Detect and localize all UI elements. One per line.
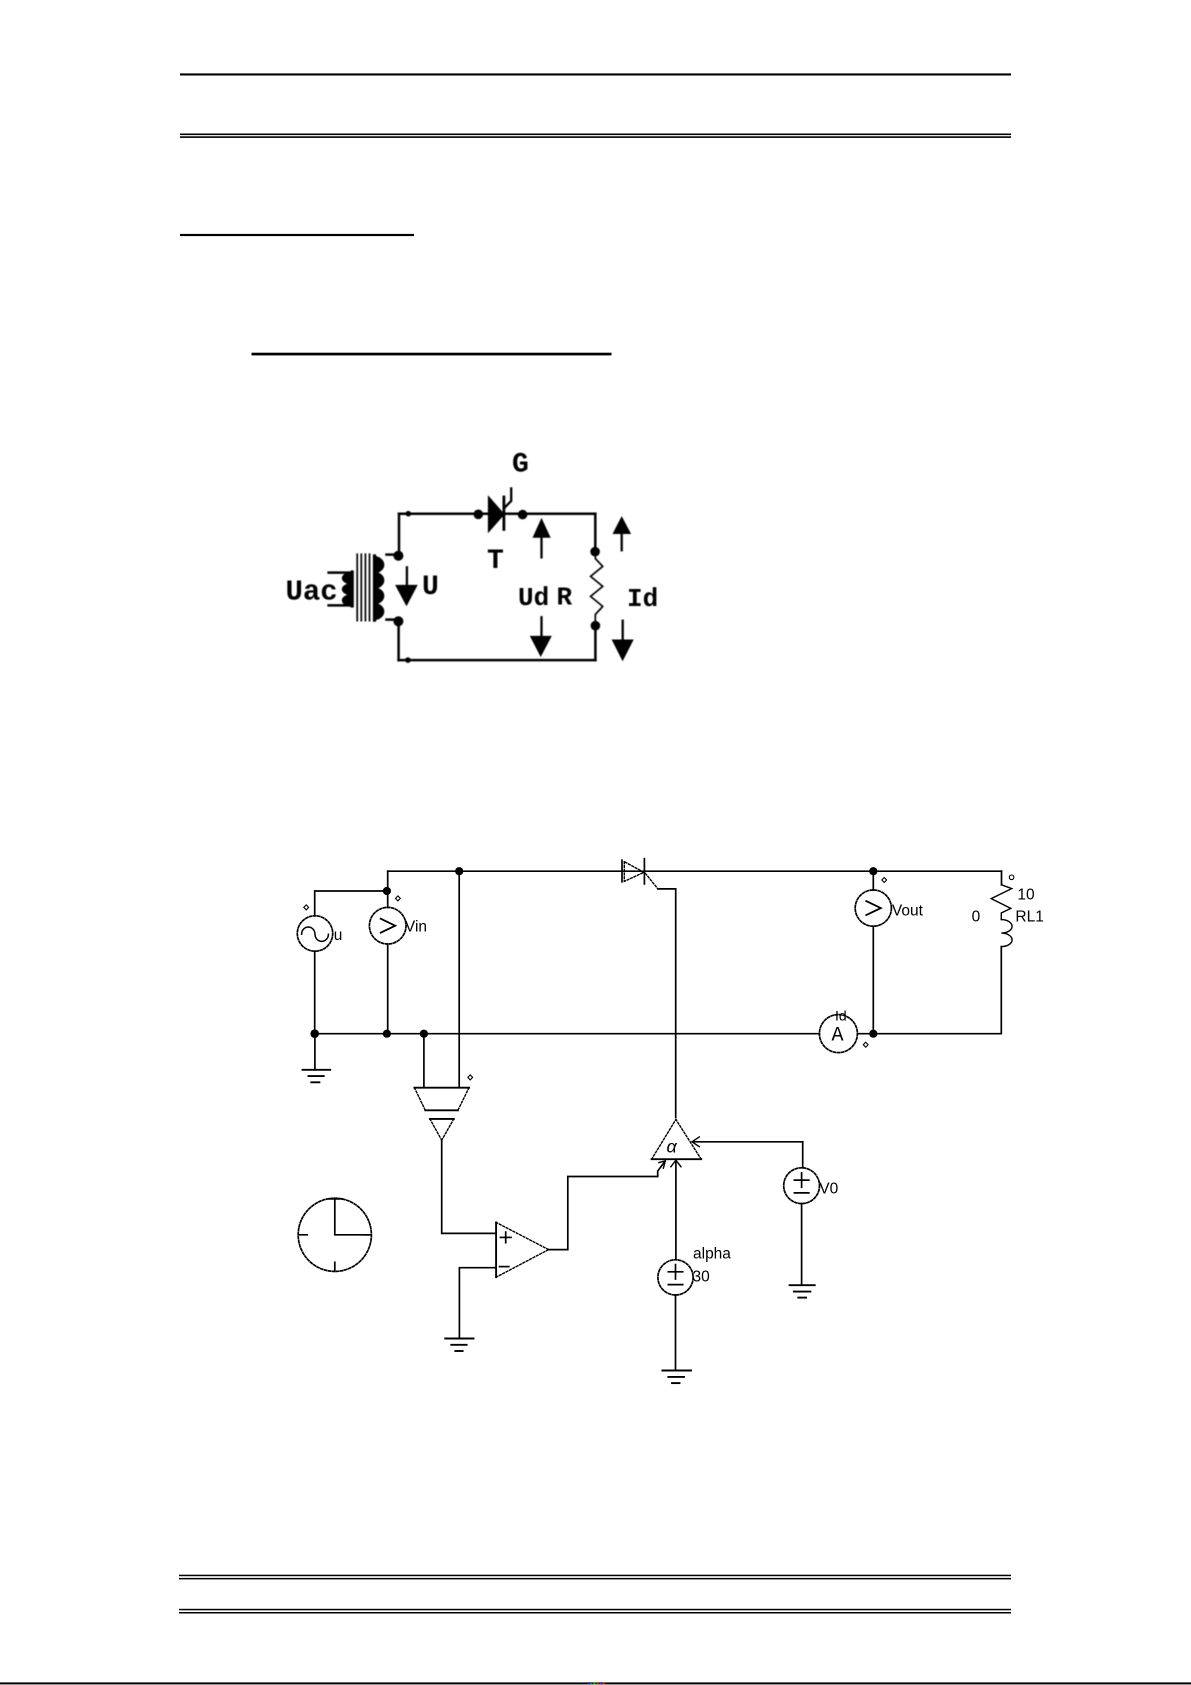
footer double rule upper [179,1575,1011,1580]
port marker gating block [468,1075,473,1080]
arrowhead V0-to-alpha [692,1137,699,1147]
wire top rail c1 [399,512,595,515]
ground G1 [303,1070,331,1083]
wire bottom rail c2 right [858,1033,874,1035]
transformer TR1 secondary winding [375,556,384,620]
wire left vertical bottom c1 [397,621,400,660]
source V0 minus sign [794,1192,808,1194]
port marker ammeter [863,1042,868,1047]
node dot u-Vin [383,887,391,895]
source alpha-30 circle [658,1260,693,1295]
wire right vertical bottom c1 [594,626,597,660]
wire left vertical top c1 [398,514,401,555]
wire u top lead [315,891,387,916]
alpha controller triangle [652,1120,702,1160]
wire V0 bottom lead [801,1204,803,1285]
ground G3 [790,1285,815,1297]
inductor RL1 humps [1001,920,1012,947]
heading underline [180,234,414,236]
svg-text:Id: Id [835,1007,847,1023]
transformer TR1 primary bottom stub [329,604,352,607]
svg-text:G: G [512,450,529,481]
wire Vin vertical [387,871,389,907]
thyristor Q cathode bar [643,859,645,884]
node secondary bottom dot [393,616,403,626]
voltmeter Vin circle [369,907,406,944]
svg-text:A: A [832,1025,844,1048]
arrow Id up [613,517,630,550]
node dot AC bottom [310,1029,319,1038]
gating block trapezoid [414,1088,469,1111]
node secondary top dot [393,551,403,561]
port marker Vin [396,896,401,901]
port marker RL1 [1009,875,1014,880]
source V0 circle [784,1168,820,1204]
page number specks [587,1682,604,1684]
node small dot bottom-left c1 [405,657,411,663]
header double rule [180,134,1011,138]
node dot ammeter-Vout [869,1030,877,1038]
wire gating left branch [423,1034,425,1088]
thyristor Q anode bar [621,860,623,882]
wire right vertical top c1 [594,514,597,552]
wire V0 input to alpha [694,1141,803,1143]
wire comparator minus input [459,1268,496,1339]
arrow Id down [612,621,633,660]
ground G2 [445,1339,473,1352]
wire comparator output to alpha [549,1162,665,1250]
svg-text:U: U [422,572,439,603]
wire AC bottom lead [314,951,316,1033]
comparator minus sign [500,1266,509,1268]
source V0 plus sign [794,1173,808,1187]
wire top rail c2 [388,870,1002,872]
comparator U1 body [496,1222,548,1277]
thyristor Q gate diagonal [646,874,658,889]
node dot Vout top [869,867,877,875]
resistor R zigzag [591,557,603,622]
voltmeter Vout circle [855,890,891,926]
thyristor Q triangle [624,862,644,882]
AC source u sine [302,927,329,941]
arrowhead comparator-to-alpha [659,1161,665,1168]
wire alpha-30 source to alpha [675,1160,677,1259]
arrow Ud down [531,617,551,656]
header rule top [180,73,1011,75]
wire RL1 top corner [1001,871,1003,885]
svg-text:10: 10 [1017,887,1035,904]
svg-text:Uac: Uac [286,576,338,609]
node resistor R top dot [590,547,600,557]
node dot gating branch bottom [420,1030,428,1038]
clock ticks [299,1199,370,1271]
svg-text:u: u [334,927,343,944]
node resistor R bottom dot [591,621,601,631]
svg-text:0: 0 [972,909,981,926]
wire gating out to comparator [442,1140,496,1233]
node anode dot thyristor T [474,510,484,520]
transformer TR1 primary winding [343,572,352,606]
transformer TR1 core [357,554,369,620]
port marker u [304,905,309,910]
thyristor T cathode bar [502,497,505,529]
wire Vin bottom lead [387,944,389,1034]
arrow Ud up [533,519,550,557]
thyristor T gate lead [505,488,512,507]
wire gate to alpha vertical [658,889,676,1118]
ammeter A circle [819,1015,857,1053]
svg-text:Ud: Ud [518,583,549,613]
wire RL1 bottom lead [873,947,1001,1034]
ground G4 [662,1371,691,1384]
port marker Vout [882,878,887,883]
wire ground stub AC [314,1034,316,1070]
node dot gate branch [455,867,463,875]
node small dot top-left c1 [406,511,412,517]
clock hands [335,1199,371,1235]
transformer TR1 primary top stub [329,571,352,574]
svg-text:alpha: alpha [693,1246,731,1263]
transformer TR1 secondary top stub [387,553,399,556]
thyristor T triangle [489,497,504,531]
node dot Vin bottom [383,1030,391,1038]
svg-text:T: T [487,546,504,577]
page bottom rule [0,1682,1191,1684]
transformer TR1 secondary bottom stub [387,618,399,621]
source alpha-30 plus sign [668,1265,682,1279]
arrowhead 30-to-alpha [671,1160,681,1167]
wire V0 top lead [802,1142,804,1168]
wire bottom rail c2 left [315,1033,820,1035]
subheading underline [252,353,612,356]
svg-text:30: 30 [693,1269,711,1286]
wire Vout top lead [872,871,874,890]
gating block triangle [430,1119,454,1140]
svg-text:Vout: Vout [892,903,924,920]
clock symbol circle [298,1198,371,1271]
wire Vout bottom lead [872,926,874,1033]
arrow U (secondary voltage) [396,567,417,605]
footer double rule lower [179,1609,1011,1614]
node cathode dot thyristor T [518,510,528,520]
svg-text:V0: V0 [819,1181,838,1198]
svg-text:α: α [667,1137,678,1157]
svg-text:Vin: Vin [405,919,427,936]
wire bottom rail c1 [399,659,596,662]
voltmeter Vout chevron [866,901,881,915]
wire gating right branch [458,871,460,1087]
resistor-inductor RL1 zigzag [991,885,1012,920]
AC source u circle [297,916,332,951]
wire alpha-30 bottom lead [675,1295,677,1370]
comparator plus sign [500,1232,511,1243]
source alpha-30 minus sign [668,1284,682,1286]
svg-text:Id: Id [627,584,658,614]
svg-text:RL1: RL1 [1015,909,1043,926]
voltmeter Vin chevron [381,919,396,933]
svg-text:R: R [557,583,573,613]
